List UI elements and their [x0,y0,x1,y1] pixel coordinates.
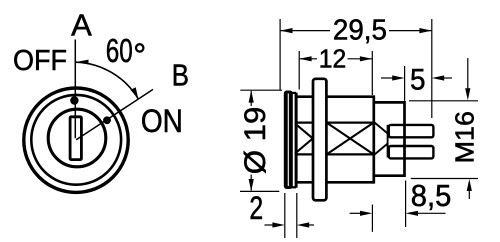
M16 top leader arrow (down) [465,88,470,100]
60 degree arc [76,62,139,99]
svg-text:5: 5 [410,63,426,96]
M16 top leader shaft [467,58,469,89]
rear frustum vertical [387,125,389,158]
svg-text:Ø 19: Ø 19 [239,107,272,175]
dimension 29,5 arrow left [280,28,292,33]
main body bottom edge [296,181,374,184]
dimension dia19 arrow up [249,90,254,102]
dimension 8,5 right extension line [405,181,407,228]
dimension dia19 arrow down [249,179,254,191]
dimension dia19 line lower [250,175,252,191]
leader line A (OFF position, vertical) [74,40,76,139]
OFF position dot [70,96,78,104]
arc arrowhead right [131,87,139,99]
leader line B (ON position, 60 deg) [76,89,153,139]
dimension 5 right tail [444,77,453,79]
dimension 8,5 arrow right (points left) [406,211,418,216]
degree symbol [136,44,143,51]
terminal prong lower [389,146,434,158]
dimension dia19 line upper [250,91,252,106]
dimension 29,5 arrow right [419,28,431,33]
dimension 29,5 line [280,30,432,32]
dimension 2 left tail [265,224,274,226]
middle ring circle [31,95,121,185]
terminal prong upper [389,125,434,137]
dimension 8,5 arrow left (points right) [360,211,372,216]
dimension 8,5 left extension line [371,205,373,232]
svg-text:12: 12 [319,44,347,74]
section band bottom line [295,153,374,155]
svg-text:8,5: 8,5 [411,178,452,213]
dimension dia19 top extension line [240,89,282,91]
threaded barrel outline [374,102,405,175]
dimension 8,5 right tail [418,212,446,214]
front flange ring [284,91,293,190]
M16 bottom leader arrow (up) [467,179,472,191]
arc arrowhead left [76,60,89,65]
svg-text:2: 2 [249,190,263,226]
flange-to-body ledge bottom [290,186,297,188]
svg-text:OFF: OFF [13,45,67,77]
dimension 5 arrow left [392,75,404,80]
dimension 2 right tail [309,224,315,226]
key slot [70,117,81,160]
main body top edge [296,95,374,98]
svg-text:B: B [172,57,189,92]
svg-text:29,5: 29,5 [333,14,387,46]
dimension 2 arrow right (points left) [297,222,309,227]
dimension 12 line [299,58,372,60]
dimension dia19 bottom extension line [240,190,279,192]
svg-text:M16: M16 [449,111,479,163]
dimension 2 arrow left (points right) [272,222,284,227]
rear frustum diagonal upper [375,123,388,134]
M16 bottom leader shaft [468,191,470,200]
thread M16 bottom extension line [411,178,478,180]
ON position dot [103,116,111,124]
dimension 2 right extension line [296,193,298,238]
dimension 2 left extension line [284,193,286,238]
svg-text:A: A [71,7,92,42]
dimension 5 arrow right [432,75,444,80]
inner rotor circle [48,109,106,167]
mounting nut [313,79,326,201]
svg-text:ON: ON [141,103,183,139]
outer bezel circle [24,88,128,192]
left bowtie diagonal upper [295,124,313,139]
dimension 8,5 left tail [350,212,361,214]
dimension 12 arrow right [360,56,372,61]
dimension 12 left extension line [298,51,300,90]
body front face / washer plate [295,93,298,188]
dimension 29,5 / 5 shared right extension line [431,19,433,118]
right X diagonal 1 [327,123,374,155]
dimension 5 left extension line [404,66,406,101]
dimension 12 right extension line [371,51,373,95]
dimension 5 left tail [381,77,393,79]
right X diagonal 2 [327,123,374,155]
dimension 12 arrow left [299,56,311,61]
flange-to-body ledge top [290,92,297,94]
main body rear edge [372,95,375,183]
section band top line [295,121,374,123]
svg-text:60: 60 [106,32,133,69]
left bowtie diagonal lower [295,138,313,153]
dimension 29,5 left extension line [279,19,281,90]
rear frustum diagonal lower [375,144,388,155]
flange inner split line [287,94,289,187]
thread M16 top extension line [409,100,478,102]
